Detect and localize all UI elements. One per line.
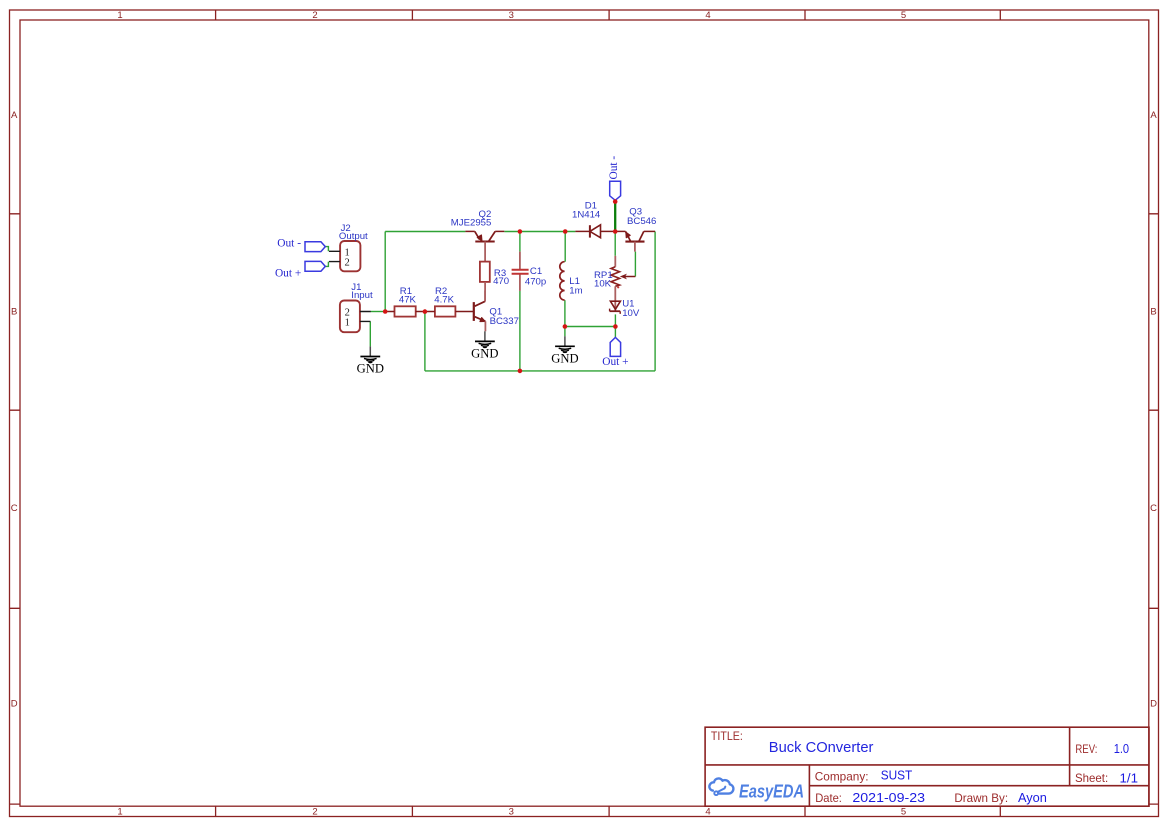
junction node Out- flag [613,199,618,204]
svg-text:2: 2 [312,806,317,817]
junction node Out+ [613,324,618,329]
svg-text:A: A [1150,110,1157,121]
transistor Q2 [465,231,504,261]
svg-text:10V: 10V [622,308,640,319]
svg-text:C1: C1 [530,266,542,277]
transistor Q1 [474,291,486,332]
junction node R1 left [383,309,388,314]
zener diode U1 [610,301,621,314]
R3 bottom pin [484,282,486,302]
wire top bus right of Q2 [504,231,575,233]
wire C1 bottom to bus [519,291,521,371]
wire L1 bottom to gnd node [564,300,566,326]
wire node to L1 top [564,232,566,262]
svg-text:B: B [1150,307,1156,318]
frame column labels bottom [117,806,906,817]
svg-text:MJE2955: MJE2955 [451,217,492,228]
svg-text:REV:: REV: [1075,742,1097,756]
connector J2 [329,241,360,271]
net flag Out- (left) [305,242,325,252]
svg-text:BC337: BC337 [490,316,519,327]
wire U1 to out+ node [614,314,616,326]
wire node to RP1 top [614,232,616,256]
svg-text:B: B [11,307,17,318]
svg-text:GND: GND [471,347,498,361]
svg-text:1N414: 1N414 [572,210,601,221]
wire J1 pin2 to node A [371,311,386,313]
transistor Q3 [615,231,655,251]
svg-text:Date:: Date: [815,791,842,805]
svg-text:SUST: SUST [881,769,913,783]
net flag Out- (top) [610,181,621,200]
svg-text:4: 4 [705,806,710,817]
svg-text:1: 1 [117,806,122,817]
EasyEDA logo cloud icon [709,778,733,795]
R2 pins [425,311,474,313]
resistor R1 [395,306,416,316]
svg-text:BC546: BC546 [627,216,656,227]
svg-text:C: C [11,503,18,514]
svg-text:1m: 1m [569,285,582,296]
connector J1 [340,301,371,333]
net flag Out+ (bottom) [610,337,620,356]
svg-text:470p: 470p [525,277,546,288]
svg-text:D: D [11,699,18,710]
svg-text:4: 4 [705,10,710,21]
ground under L1 [555,336,575,352]
svg-text:2: 2 [345,257,350,268]
wire C1 top [519,232,521,252]
svg-text:Drawn By:: Drawn By: [954,791,1008,805]
svg-text:Buck COnverter: Buck COnverter [769,739,874,756]
svg-text:EasyEDA: EasyEDA [739,782,804,802]
capacitor C1 [512,252,529,291]
wire Out- net (dark) [614,203,616,232]
wire out+ node to flag [614,327,616,338]
wire J1 pin1 to gnd [369,321,371,346]
frame row labels left [11,110,18,709]
ground under Q1 [475,331,495,347]
svg-text:10K: 10K [594,278,612,289]
junction node R1-R2 [423,309,428,314]
wire Q3 base to RP1 wiper [634,252,636,277]
frame column labels top [117,10,906,21]
svg-text:1: 1 [117,10,122,21]
wire bottom bus [425,370,655,372]
wire vertical from top bus to R1 node [384,232,386,312]
ground under J1 [360,346,380,362]
net flag Out+ (left) [305,261,325,271]
resistor R3 [480,262,490,282]
R1 pins [385,311,425,313]
svg-text:1.0: 1.0 [1114,742,1129,756]
wire gnd node down [564,327,566,337]
svg-text:5: 5 [901,806,906,817]
svg-text:5: 5 [901,10,906,21]
svg-text:Sheet:: Sheet: [1075,771,1108,785]
svg-text:1/1: 1/1 [1120,771,1139,785]
frame row labels right [1150,110,1157,709]
svg-text:1: 1 [345,317,350,328]
svg-text:2021-09-23: 2021-09-23 [852,791,925,805]
resistor R2 [435,306,456,316]
junction node L1 top [563,229,568,234]
wire top bus left segment [385,231,465,233]
svg-text:47K: 47K [399,295,417,306]
svg-text:A: A [11,110,18,121]
svg-text:D: D [1150,699,1157,710]
svg-text:Input: Input [351,290,373,301]
svg-text:3: 3 [509,806,514,817]
svg-text:Out +: Out + [602,356,628,368]
inductor L1 [560,262,565,300]
svg-text:TITLE:: TITLE: [711,729,743,743]
svg-text:4.7K: 4.7K [434,295,454,306]
svg-text:Out -: Out - [608,156,620,180]
junction node gnd-L1 [563,324,568,329]
wire J2 pin1 jog [325,247,328,252]
svg-text:2: 2 [312,10,317,21]
wire vertical R1R2 node to bottom bus [424,312,426,371]
title block grid [705,727,1149,806]
svg-text:C: C [1150,503,1157,514]
svg-text:Output: Output [339,231,368,242]
svg-text:Company:: Company: [815,769,869,783]
wire J2 pin2 jog [325,262,328,267]
svg-text:Out +: Out + [275,267,301,279]
potentiometer RP1 [611,256,635,311]
svg-text:GND: GND [357,362,384,376]
svg-text:470: 470 [493,276,509,287]
svg-text:Ayon: Ayon [1018,791,1047,805]
junction node D1-Q3 [613,229,618,234]
svg-text:3: 3 [509,10,514,21]
svg-text:GND: GND [551,351,578,365]
wire right side vertical [654,232,656,371]
svg-text:Out -: Out - [277,237,301,249]
diode D1 [575,225,615,238]
junction node bottom bus [518,369,523,374]
wire gnd node to out+ node [565,326,616,328]
junction node C1 top [518,229,523,234]
